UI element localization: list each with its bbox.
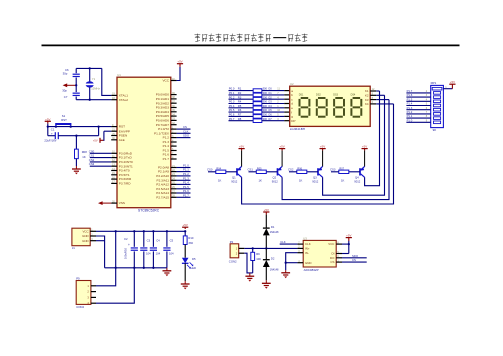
svg-text:R05: R05 bbox=[257, 168, 262, 171]
svg-text:STC89C52RC: STC89C52RC bbox=[138, 209, 160, 213]
svg-text:D5: D5 bbox=[192, 257, 196, 261]
svg-text:J1: J1 bbox=[72, 246, 75, 250]
svg-text:R08: R08 bbox=[82, 150, 88, 154]
svg-text:P1.6: P1.6 bbox=[407, 93, 413, 97]
svg-text:U3: U3 bbox=[303, 236, 307, 240]
svg-text:DS3: DS3 bbox=[333, 93, 338, 96]
svg-text:O5: O5 bbox=[268, 108, 272, 112]
svg-text:CS3: CS3 bbox=[89, 162, 95, 166]
svg-text:300: 300 bbox=[263, 91, 268, 95]
svg-text:+: + bbox=[128, 243, 130, 247]
svg-text:Q3: Q3 bbox=[313, 176, 317, 180]
svg-text:1N4148: 1N4148 bbox=[270, 231, 279, 234]
svg-text:O0: O0 bbox=[268, 87, 272, 91]
svg-text:300: 300 bbox=[263, 104, 268, 108]
svg-text:CS: CS bbox=[330, 260, 334, 264]
svg-text:DS1: DS1 bbox=[299, 93, 304, 96]
svg-text:R5: R5 bbox=[238, 104, 242, 108]
svg-text:104: 104 bbox=[169, 252, 174, 256]
svg-text:1K: 1K bbox=[299, 179, 303, 183]
svg-text:O2: O2 bbox=[268, 95, 272, 99]
svg-text:P2.2/A10: P2.2/A10 bbox=[156, 174, 169, 178]
svg-text:30p: 30p bbox=[63, 72, 68, 76]
svg-text:P1.6: P1.6 bbox=[163, 153, 170, 157]
svg-text:C3: C3 bbox=[147, 239, 151, 243]
svg-text:CON2: CON2 bbox=[229, 260, 237, 264]
svg-text:R06: R06 bbox=[297, 168, 302, 171]
svg-text:Q1: Q1 bbox=[232, 176, 236, 180]
svg-text:P0.7/AD7: P0.7/AD7 bbox=[156, 123, 170, 127]
svg-text:P1.5: P1.5 bbox=[407, 97, 413, 101]
svg-text:O3: O3 bbox=[268, 100, 272, 104]
svg-text:P1.4: P1.4 bbox=[163, 144, 170, 148]
svg-text:P2.7/A15: P2.7/A15 bbox=[156, 195, 169, 199]
svg-text:P1.7: P1.7 bbox=[163, 157, 170, 161]
svg-text:R4: R4 bbox=[238, 100, 242, 104]
svg-text:R2: R2 bbox=[238, 91, 242, 95]
svg-text:K4: K4 bbox=[365, 102, 369, 106]
svg-text:104: 104 bbox=[146, 252, 151, 256]
svg-text:P0.6: P0.6 bbox=[229, 113, 235, 117]
svg-text:10K: 10K bbox=[256, 257, 261, 261]
svg-text:C2: C2 bbox=[124, 237, 128, 241]
svg-text:300: 300 bbox=[263, 117, 268, 121]
svg-text:P0.2: P0.2 bbox=[229, 95, 235, 99]
svg-text:300: 300 bbox=[263, 95, 268, 99]
svg-text:DS2: DS2 bbox=[316, 93, 321, 96]
svg-text:C5: C5 bbox=[170, 239, 174, 243]
svg-text:R8: R8 bbox=[238, 117, 242, 121]
svg-text:300: 300 bbox=[263, 113, 268, 117]
svg-text:1K: 1K bbox=[259, 179, 263, 183]
svg-text:+5V: +5V bbox=[93, 138, 98, 142]
svg-text:IN-: IN- bbox=[305, 251, 309, 255]
svg-text:CS: CS bbox=[352, 258, 356, 262]
svg-text:R9: R9 bbox=[256, 252, 260, 256]
svg-text:GND: GND bbox=[82, 239, 88, 243]
svg-text:D1: D1 bbox=[271, 225, 275, 229]
svg-text:ALE: ALE bbox=[119, 138, 125, 142]
svg-text:R10: R10 bbox=[188, 236, 194, 240]
svg-text:Q4: Q4 bbox=[355, 176, 359, 180]
svg-text:P0.4: P0.4 bbox=[229, 104, 235, 108]
svg-text:CS2: CS2 bbox=[288, 168, 294, 172]
svg-text:CS3: CS3 bbox=[330, 168, 336, 172]
svg-text:RP1: RP1 bbox=[431, 81, 437, 85]
svg-text:R3: R3 bbox=[238, 95, 242, 99]
svg-text:CLK: CLK bbox=[280, 240, 286, 244]
svg-text:P1.7: P1.7 bbox=[183, 193, 189, 197]
svg-text:P1.2: P1.2 bbox=[183, 172, 189, 176]
svg-text:O7: O7 bbox=[268, 117, 272, 121]
svg-text:P0.0: P0.0 bbox=[229, 87, 235, 91]
svg-text:R7: R7 bbox=[238, 113, 242, 117]
svg-text:P0.5: P0.5 bbox=[229, 108, 235, 112]
svg-text:GND: GND bbox=[82, 234, 88, 238]
svg-text:DS4: DS4 bbox=[351, 93, 356, 96]
svg-text:P1.4: P1.4 bbox=[183, 180, 189, 184]
svg-text:VCC: VCC bbox=[162, 79, 169, 83]
svg-text:P1.4: P1.4 bbox=[407, 102, 413, 106]
svg-text:9012: 9012 bbox=[312, 179, 319, 183]
svg-text:CS0: CS0 bbox=[207, 168, 213, 172]
svg-text:300: 300 bbox=[263, 100, 268, 104]
svg-text:VCC: VCC bbox=[328, 242, 334, 246]
svg-text:9012: 9012 bbox=[272, 179, 279, 183]
svg-text:12MHz: 12MHz bbox=[91, 86, 100, 90]
svg-text:R07: R07 bbox=[339, 168, 344, 171]
svg-text:22uF/16V: 22uF/16V bbox=[44, 139, 56, 143]
svg-text:Q2: Q2 bbox=[273, 176, 277, 180]
svg-text:RST: RST bbox=[61, 118, 67, 122]
svg-text:P1.2: P1.2 bbox=[163, 136, 170, 140]
svg-text:GND: GND bbox=[305, 261, 311, 265]
svg-text:DP: DP bbox=[291, 119, 295, 123]
svg-text:RST: RST bbox=[119, 125, 125, 129]
svg-text:1N4148: 1N4148 bbox=[270, 268, 279, 271]
svg-text:O4: O4 bbox=[268, 104, 272, 108]
svg-text:9012: 9012 bbox=[354, 179, 361, 183]
svg-text:XTAL2: XTAL2 bbox=[119, 98, 129, 102]
svg-text:ADC0832P: ADC0832P bbox=[304, 268, 319, 272]
svg-text:O6: O6 bbox=[268, 113, 272, 117]
svg-text:P0.1: P0.1 bbox=[229, 91, 235, 95]
svg-text:1K: 1K bbox=[218, 179, 222, 183]
svg-text:U1: U1 bbox=[117, 73, 121, 77]
svg-text:O1: O1 bbox=[268, 91, 272, 95]
svg-text:SDO: SDO bbox=[183, 134, 190, 138]
svg-text:1K: 1K bbox=[341, 179, 345, 183]
svg-text:P3.7/RD: P3.7/RD bbox=[119, 182, 131, 186]
svg-text:R1: R1 bbox=[238, 87, 242, 91]
svg-text:+: + bbox=[51, 132, 53, 136]
svg-text:U2: U2 bbox=[290, 82, 294, 86]
svg-text:CON4: CON4 bbox=[76, 305, 84, 309]
svg-text:C1: C1 bbox=[51, 128, 55, 132]
svg-text:P1.7: P1.7 bbox=[407, 89, 413, 93]
svg-text:P1.0: P1.0 bbox=[407, 118, 413, 122]
svg-text:P0.7: P0.7 bbox=[229, 117, 235, 121]
svg-text:1K: 1K bbox=[82, 155, 86, 159]
svg-text:104: 104 bbox=[156, 252, 161, 256]
svg-text:LED: LED bbox=[191, 266, 196, 270]
svg-text:330: 330 bbox=[188, 241, 193, 245]
svg-text:300: 300 bbox=[263, 108, 268, 112]
svg-text:VSS: VSS bbox=[119, 201, 125, 205]
svg-text:R04: R04 bbox=[216, 168, 221, 171]
svg-text:P1.3: P1.3 bbox=[407, 106, 413, 110]
svg-text:LG3641BH: LG3641BH bbox=[290, 127, 305, 131]
svg-text:CS1: CS1 bbox=[248, 168, 254, 172]
svg-text:P0.3: P0.3 bbox=[229, 100, 235, 104]
svg-text:P2: P2 bbox=[230, 240, 234, 244]
svg-text:D2: D2 bbox=[271, 257, 275, 261]
svg-text:P2.4/A12: P2.4/A12 bbox=[156, 183, 169, 187]
svg-text:300: 300 bbox=[263, 87, 268, 91]
svg-text:R6: R6 bbox=[238, 108, 242, 112]
svg-text:P9: P9 bbox=[76, 276, 80, 280]
svg-text:SDO: SDO bbox=[352, 254, 359, 258]
svg-text:P1.1: P1.1 bbox=[407, 114, 413, 118]
svg-text:9012: 9012 bbox=[231, 179, 238, 183]
svg-text:VCC: VCC bbox=[82, 229, 88, 233]
svg-text:Y1: Y1 bbox=[92, 77, 96, 81]
svg-text:30p: 30p bbox=[62, 89, 67, 93]
svg-text:9K: 9K bbox=[433, 128, 437, 132]
svg-text:C7: C7 bbox=[64, 95, 68, 99]
svg-text:P1.2: P1.2 bbox=[407, 110, 413, 114]
svg-text:C4: C4 bbox=[156, 239, 160, 243]
svg-text:100uF/16: 100uF/16 bbox=[124, 247, 128, 259]
